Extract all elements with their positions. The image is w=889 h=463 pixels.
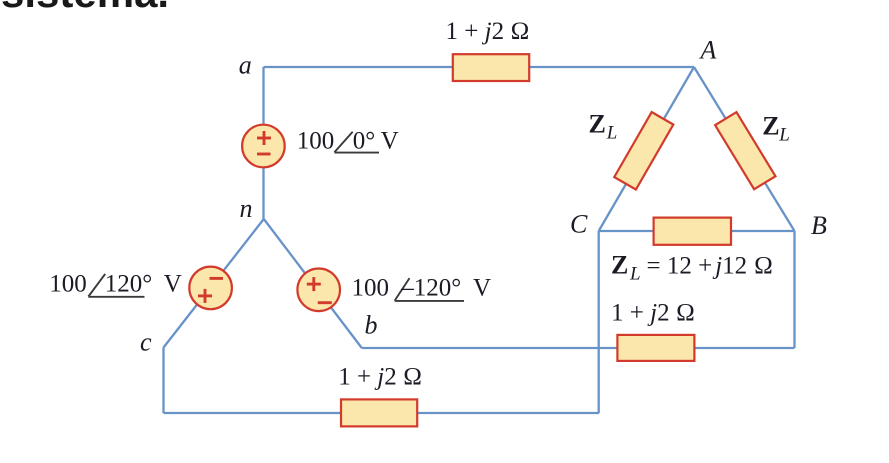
wire n to b (right diagonal) bbox=[264, 219, 362, 348]
wire A to C (delta left side) bbox=[599, 67, 694, 231]
svg-text:L: L bbox=[778, 125, 790, 146]
svg-text:L: L bbox=[629, 264, 641, 285]
source Van 100/0 (circle) bbox=[242, 125, 285, 168]
source Vcn 100/120 (circle) bbox=[189, 267, 232, 310]
wire n to c (left diagonal) bbox=[164, 219, 264, 348]
svg-text:1 + j2 Ω: 1 + j2 Ω bbox=[611, 300, 695, 327]
wire C to B (delta bottom) bbox=[599, 230, 795, 232]
svg-text:Ω: Ω bbox=[754, 253, 773, 280]
label 100/120 V bbox=[49, 271, 182, 298]
label 100/0 V bbox=[297, 127, 399, 154]
resistor 1+j2 phase c bbox=[341, 399, 417, 426]
svg-text:0°: 0° bbox=[353, 127, 376, 154]
resistor ZL left (A-C) bbox=[614, 112, 673, 189]
svg-text:100: 100 bbox=[352, 274, 390, 301]
resistor 1+j2 phase b bbox=[617, 335, 694, 361]
resistor 1+j2 top (phase a line) bbox=[453, 54, 529, 81]
label ZL right bbox=[762, 112, 790, 146]
source Vbn 100/-120 (circle) bbox=[297, 269, 340, 312]
svg-text:n: n bbox=[240, 194, 253, 223]
svg-text:= 12 +: = 12 + bbox=[647, 253, 713, 280]
svg-text:j12: j12 bbox=[712, 253, 747, 280]
svg-text:V: V bbox=[164, 271, 182, 298]
svg-text:A: A bbox=[699, 36, 717, 65]
svg-text:1 + j2 Ω: 1 + j2 Ω bbox=[338, 364, 422, 391]
label 100/-120 V bbox=[352, 274, 492, 301]
resistor ZL right (A-B) bbox=[715, 112, 775, 189]
heading text "sistema." clipped at top bbox=[1, 0, 169, 17]
label ZL = 12 + j12 ohm bbox=[611, 251, 773, 285]
svg-text:L: L bbox=[606, 123, 618, 144]
wire c down (left vertical) bbox=[162, 348, 164, 414]
svg-text:100: 100 bbox=[49, 271, 87, 298]
wire a to n (left vertical) bbox=[262, 67, 264, 219]
resistor ZL bottom (C-B) bbox=[654, 218, 731, 245]
svg-text:c: c bbox=[140, 328, 152, 357]
svg-text:V: V bbox=[381, 127, 399, 154]
wire A to B (delta right side) bbox=[694, 67, 795, 231]
svg-text:B: B bbox=[811, 211, 827, 240]
svg-text:a: a bbox=[239, 51, 252, 80]
svg-text:V: V bbox=[473, 274, 491, 301]
label ZL left bbox=[589, 109, 618, 143]
svg-text:Z: Z bbox=[611, 251, 628, 280]
svg-text:C: C bbox=[570, 210, 588, 239]
wire bottom horizontal (phase c) bbox=[164, 412, 600, 414]
wire a to A (top horizontal) bbox=[264, 66, 695, 68]
svg-text:Z: Z bbox=[762, 112, 779, 141]
svg-text:120°: 120° bbox=[105, 271, 153, 298]
svg-text:1 + j2 Ω: 1 + j2 Ω bbox=[446, 18, 530, 45]
svg-text:Z: Z bbox=[589, 109, 606, 138]
wire up to C (phase c vertical) bbox=[598, 231, 600, 413]
svg-text:100: 100 bbox=[297, 127, 335, 154]
wire B down to phase-b line bbox=[793, 231, 795, 348]
wire b to corner below B (phase-b horizontal) bbox=[362, 347, 795, 349]
svg-text:b: b bbox=[365, 311, 378, 340]
svg-text:–120°: –120° bbox=[400, 274, 461, 301]
